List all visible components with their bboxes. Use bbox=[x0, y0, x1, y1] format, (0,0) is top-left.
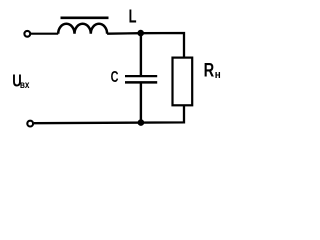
node A (junction dot, top) bbox=[137, 30, 144, 37]
capacitor C bottom plate bbox=[125, 81, 157, 84]
wire: bottom rail from terminal to resistor bottom lead bbox=[34, 105, 184, 123]
svg-text:н: н bbox=[215, 69, 221, 81]
terminal (input, top-left) bbox=[24, 31, 30, 37]
svg-text:L: L bbox=[129, 7, 137, 27]
label Rn (load resistor) bbox=[204, 58, 221, 81]
wire: top terminal to inductor bbox=[31, 33, 58, 35]
label Uvx (input voltage) bbox=[12, 72, 30, 91]
inductor core bar bbox=[61, 16, 109, 19]
node B (junction dot, bottom) bbox=[138, 119, 145, 126]
svg-text:C: C bbox=[111, 68, 119, 85]
capacitor C top plate bbox=[125, 75, 157, 77]
svg-text:вх: вх bbox=[20, 78, 30, 90]
wire: node A down to capacitor top plate bbox=[140, 33, 142, 75]
wire: inductor to node A, to top-right corner, down to resistor bbox=[107, 33, 184, 58]
svg-text:R: R bbox=[204, 58, 215, 81]
terminal (input, bottom-left) bbox=[27, 121, 33, 127]
resistor Rn body bbox=[173, 58, 193, 106]
inductor L coil bbox=[58, 24, 107, 34]
wire: capacitor bottom plate down to node B bbox=[140, 84, 142, 123]
